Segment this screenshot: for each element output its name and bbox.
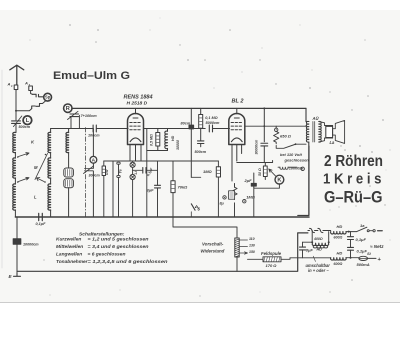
svg-text:110: 110	[249, 237, 255, 241]
svg-text:2: 2	[28, 83, 31, 87]
svg-text:0,1μF: 0,1μF	[36, 222, 47, 226]
svg-text:650 Ω: 650 Ω	[280, 134, 292, 139]
svg-text:300cm: 300cm	[89, 174, 101, 178]
svg-text:Kurzwellen: Kurzwellen	[56, 237, 81, 243]
svg-text:= 6 geschlossen: = 6 geschlossen	[88, 252, 126, 258]
svg-text:150: 150	[249, 250, 255, 254]
svg-text:2 Röhren: 2 Röhren	[324, 153, 383, 170]
svg-text:HD: HD	[337, 250, 343, 255]
svg-text:600Ω: 600Ω	[334, 262, 343, 266]
svg-text:1MΩ: 1MΩ	[246, 194, 256, 199]
svg-text:80cm: 80cm	[181, 122, 191, 126]
svg-text:500cm: 500cm	[195, 150, 207, 154]
svg-text:1a: 1a	[360, 223, 365, 228]
svg-text:1 K r e i s: 1 K r e i s	[323, 170, 382, 187]
svg-text:Tonabnehmer: Tonabnehmer	[56, 259, 89, 265]
svg-text:Widerstand: Widerstand	[201, 249, 225, 254]
svg-text:= 3,4 und 6 geschlossen: = 3,4 und 6 geschlossen	[88, 244, 149, 250]
svg-text:30000cm: 30000cm	[254, 140, 258, 155]
svg-text:130: 130	[249, 243, 255, 247]
svg-text:≈ Netz: ≈ Netz	[370, 244, 384, 249]
svg-text:in + oder −: in + oder −	[308, 268, 329, 273]
svg-text:= 1,2 und 5 geschlossen: = 1,2 und 5 geschlossen	[88, 237, 149, 243]
svg-text:M: M	[34, 165, 38, 170]
svg-text:170 Ω: 170 Ω	[266, 263, 278, 268]
svg-text:Schalterstellungen:: Schalterstellungen:	[79, 231, 125, 237]
svg-text:30000: 30000	[176, 140, 180, 150]
svg-text:1MΩ: 1MΩ	[203, 169, 213, 174]
svg-text:G–Rü–G: G–Rü–G	[324, 187, 383, 206]
svg-text:2μF: 2μF	[244, 178, 253, 183]
svg-text:A: A	[7, 82, 11, 87]
svg-text:Vorschalt-: Vorschalt-	[202, 242, 224, 247]
svg-text:Emud–Ulm G: Emud–Ulm G	[53, 70, 130, 82]
svg-text:bei 110 Volt: bei 110 Volt	[280, 152, 302, 157]
svg-text:10000cm: 10000cm	[23, 243, 39, 247]
svg-text:Mittelwellen: Mittelwellen	[56, 244, 83, 250]
svg-text:7+100cm: 7+100cm	[81, 114, 98, 118]
svg-text:Te: Te	[119, 169, 123, 173]
svg-text:A: A	[24, 81, 28, 86]
svg-text:0,1μF: 0,1μF	[357, 249, 368, 254]
svg-text:100cm: 100cm	[88, 134, 100, 138]
svg-text:Feldspule: Feldspule	[261, 251, 282, 256]
svg-text:AÜ: AÜ	[312, 116, 320, 121]
svg-text:H 2518 D: H 2518 D	[127, 100, 148, 106]
svg-text:A: A	[92, 158, 96, 164]
svg-text:HD: HD	[337, 224, 343, 229]
svg-text:3μF: 3μF	[147, 188, 155, 193]
svg-text:50 Ω: 50 Ω	[258, 168, 262, 176]
svg-text:Sp: Sp	[45, 95, 51, 100]
svg-text:geschlossen: geschlossen	[284, 158, 310, 163]
svg-text:0,5 MΩ: 0,5 MΩ	[150, 134, 154, 146]
svg-text:8μF: 8μF	[306, 248, 314, 253]
svg-text:RENS 1884: RENS 1884	[124, 94, 153, 100]
svg-text:R: R	[66, 106, 70, 112]
svg-text:0,1μF: 0,1μF	[356, 237, 367, 242]
svg-text:La: La	[330, 140, 336, 145]
svg-text:Langwellen: Langwellen	[56, 252, 82, 258]
svg-text:HD: HD	[317, 247, 323, 251]
svg-text:HD: HD	[171, 135, 175, 141]
svg-text:K: K	[277, 178, 281, 184]
svg-text:600Ω: 600Ω	[334, 236, 343, 240]
svg-text:BL 2: BL 2	[232, 98, 245, 104]
svg-text:500cm: 500cm	[19, 125, 31, 129]
svg-text:L: L	[34, 195, 37, 200]
svg-text:= 1,2,3,4,5 und 6 geschlossen: = 1,2,3,4,5 und 6 geschlossen	[88, 259, 168, 265]
svg-text:5000cm: 5000cm	[206, 121, 221, 125]
svg-text:500mA: 500mA	[357, 262, 370, 267]
svg-text:0,1 MΩ: 0,1 MΩ	[205, 116, 217, 120]
svg-text:L: L	[26, 118, 30, 124]
svg-text:70kΩ: 70kΩ	[178, 184, 189, 189]
svg-text:400Ω: 400Ω	[313, 237, 323, 241]
